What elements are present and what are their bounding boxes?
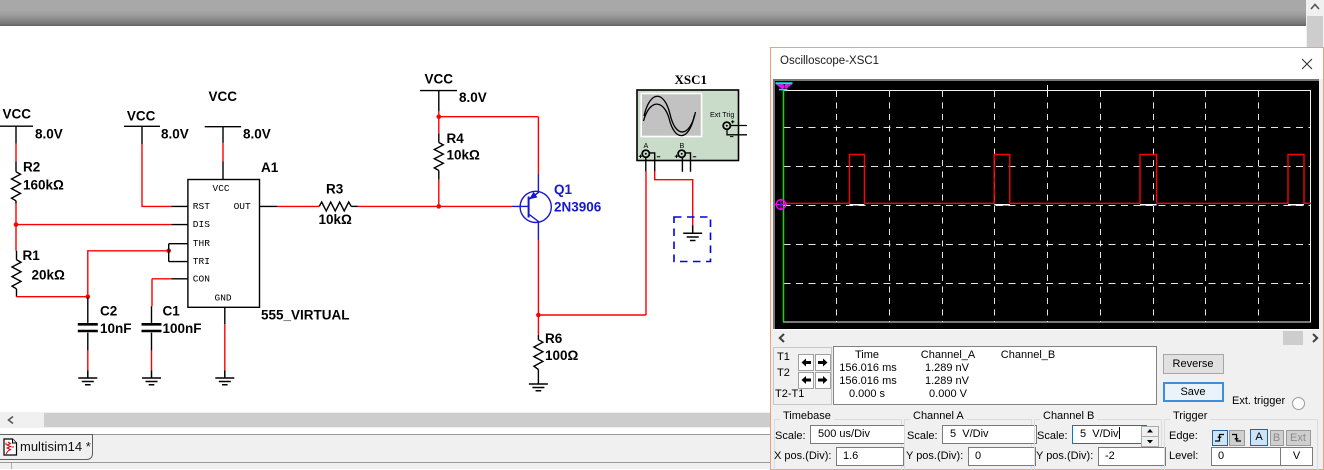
- svg-text:A: A: [644, 141, 649, 150]
- svg-text:1: 1: [782, 82, 786, 91]
- svg-text:A1: A1: [261, 160, 279, 175]
- resistor R6: [534, 335, 543, 384]
- scope display: [773, 79, 1319, 329]
- ground R6: [529, 384, 548, 391]
- wire DIS: [16, 224, 171, 226]
- svg-text:TRI: TRI: [193, 256, 210, 267]
- button B: [1270, 430, 1284, 446]
- node junction R2/R1/DIS: [14, 222, 19, 227]
- grid horizontals dashed: [784, 128, 1312, 284]
- wire node to R6: [537, 315, 539, 335]
- pin B- bracket: [685, 153, 690, 172]
- power VCC1: [0, 126, 33, 143]
- wire R2 bottom to node: [15, 204, 17, 225]
- button Save: [1163, 382, 1224, 402]
- transistor Q1 2N3906: [512, 174, 551, 240]
- wire 555 GND to ground: [224, 324, 226, 370]
- pin 555 GND stub: [224, 307, 226, 324]
- grid border: [784, 91, 1311, 323]
- svg-text:GND: GND: [215, 293, 232, 304]
- selection box (blue dashed): [674, 217, 711, 262]
- svg-text:C1: C1: [163, 304, 181, 319]
- wire VCC4 to R4: [438, 111, 440, 133]
- wire THR-TRI tie: [169, 244, 188, 262]
- svg-text:100nF: 100nF: [163, 321, 202, 336]
- node junction THR/TRI: [166, 249, 171, 254]
- svg-text:R3: R3: [326, 182, 344, 197]
- op-amp U1 555_VIRTUAL body: [188, 180, 260, 308]
- node junction C2 top: [86, 294, 91, 299]
- svg-text:R6: R6: [545, 331, 563, 346]
- scope scrollbar: [773, 330, 1319, 346]
- svg-text:100Ω: 100Ω: [545, 348, 579, 363]
- grid verticals dashed: [837, 91, 1259, 322]
- svg-text:10kΩ: 10kΩ: [319, 212, 353, 227]
- group box Trigger: [1164, 419, 1318, 470]
- terminal Ext Trig: [723, 122, 730, 129]
- svg-text:VCC: VCC: [127, 109, 156, 124]
- wire node to Q1 base: [439, 205, 512, 207]
- svg-text:OUT: OUT: [234, 201, 251, 212]
- scope icon sine waves: [644, 96, 696, 132]
- ground C2: [78, 370, 97, 384]
- svg-text:RST: RST: [193, 201, 210, 212]
- group box Timebase: [774, 419, 902, 470]
- resistor R4: [434, 133, 443, 180]
- readout values box: [833, 346, 1157, 405]
- wire C1 to ground: [151, 351, 153, 371]
- wire node to Q1 emitter: [439, 117, 539, 174]
- svg-text:8.0V: 8.0V: [161, 127, 189, 142]
- wire scope A- to ground: [655, 171, 693, 226]
- Ext. trigger label + radio: [1232, 395, 1285, 407]
- oscilloscope window: [770, 47, 1324, 470]
- document icon in tab: [3, 438, 18, 456]
- wire R4 to node: [438, 180, 440, 207]
- channel B white segments under pulses: [850, 204, 1305, 206]
- svg-text:160kΩ: 160kΩ: [23, 178, 64, 193]
- svg-text:8.0V: 8.0V: [35, 127, 63, 142]
- svg-text:VCC: VCC: [209, 89, 238, 104]
- button falling edge: [1229, 430, 1245, 446]
- svg-text:VCC: VCC: [213, 183, 230, 194]
- schematic horizontal scrollbar: [0, 412, 771, 428]
- wire VCC3 to 555: [222, 143, 224, 162]
- pin OUT stub: [260, 205, 278, 207]
- resistor R2: [12, 162, 21, 204]
- capacitor C1: [142, 306, 162, 350]
- svg-text:B: B: [680, 141, 685, 150]
- cursor T1 green line: [783, 91, 785, 323]
- svg-text:2N3906: 2N3906: [554, 200, 602, 215]
- wire C2 node to THR/TRI: [88, 251, 169, 297]
- toolbar gradient bar: [0, 0, 1306, 26]
- wire node to R1: [15, 225, 17, 251]
- group box Channel A: [904, 419, 1032, 470]
- svg-text:8.0V: 8.0V: [459, 90, 487, 105]
- svg-text:CON: CON: [193, 273, 210, 284]
- svg-text:R4: R4: [447, 131, 465, 146]
- wire Q1 collector down: [537, 240, 539, 315]
- pin A- bracket: [649, 153, 654, 171]
- tab bar: [0, 434, 771, 469]
- capacitor C2: [78, 297, 98, 351]
- node junction VCC4/emitter wire: [437, 114, 442, 119]
- wire C2 to ground: [87, 351, 89, 371]
- svg-text:XSC1: XSC1: [675, 72, 708, 87]
- power VCC4: [420, 91, 457, 112]
- pin CON stub: [171, 278, 188, 280]
- wire VCC2 to RST: [142, 144, 171, 206]
- node junction collector/R6/scope: [536, 313, 541, 318]
- button Ext: [1286, 430, 1311, 446]
- pin B+ stub: [681, 157, 683, 171]
- pin A+ stub: [645, 157, 647, 171]
- button Reverse: [1163, 354, 1224, 374]
- svg-text:8.0V: 8.0V: [243, 127, 271, 142]
- svg-text:10nF: 10nF: [100, 321, 132, 336]
- wire VCC1 to R2: [15, 144, 17, 162]
- svg-text:THR: THR: [193, 238, 210, 249]
- cursor 1 marker triangle: [776, 82, 793, 84]
- svg-text:10kΩ: 10kΩ: [447, 148, 481, 163]
- ground 555: [215, 370, 234, 384]
- button A: [1250, 429, 1268, 446]
- svg-text:VCC: VCC: [3, 107, 32, 122]
- pin 555 VCC stub: [222, 162, 224, 180]
- resistor R1: [12, 251, 21, 297]
- button rising edge: [1212, 430, 1228, 446]
- svg-text:Ext Trig: Ext Trig: [710, 110, 734, 119]
- svg-text:555_VIRTUAL: 555_VIRTUAL: [261, 308, 350, 323]
- wire R3 to node: [358, 205, 439, 207]
- pin RST stub: [171, 205, 188, 207]
- wire OUT to R3: [277, 205, 319, 207]
- app vertical scrollbar: [1306, 0, 1324, 47]
- channel A red trace: [784, 155, 1312, 204]
- svg-text:Q1: Q1: [554, 182, 573, 197]
- resistor R3: [319, 202, 358, 211]
- power VCC2: [124, 126, 160, 144]
- cursor readout panel (T1/T2): [773, 347, 832, 405]
- svg-text:R2: R2: [23, 160, 40, 175]
- svg-text:R1: R1: [23, 248, 41, 263]
- svg-text:20kΩ: 20kΩ: [32, 268, 66, 283]
- wire node to scope A: [538, 171, 646, 315]
- pin DIS stub: [171, 224, 188, 226]
- channel A zero marker: [776, 200, 786, 210]
- svg-text:C2: C2: [100, 304, 117, 319]
- ground C1: [142, 370, 161, 384]
- title bar: [771, 48, 1323, 79]
- wire CON to C1: [152, 279, 171, 307]
- power VCC3: [205, 127, 241, 143]
- node junction R4/base: [437, 204, 442, 209]
- wire R1 bottom to C2 node: [17, 296, 88, 298]
- svg-text:VCC: VCC: [425, 72, 454, 87]
- svg-text:DIS: DIS: [193, 219, 210, 230]
- ground in dashed box: [683, 226, 702, 241]
- group box Channel B: [1034, 419, 1162, 470]
